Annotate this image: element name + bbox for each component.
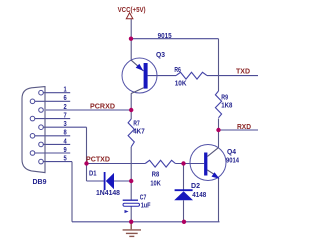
svg-text:TXD: TXD [236,66,250,75]
svg-text:4K7: 4K7 [133,127,145,136]
svg-text:4148: 4148 [192,190,206,199]
svg-text:R6: R6 [174,65,181,74]
svg-text:D2: D2 [191,181,200,190]
svg-text:1uF: 1uF [141,200,151,209]
svg-text:5: 5 [64,154,67,163]
svg-text:9014: 9014 [226,156,239,165]
svg-text:PCTXD: PCTXD [86,154,110,163]
svg-text:10K: 10K [150,179,161,188]
svg-text:VCC(+5V): VCC(+5V) [118,5,147,14]
svg-text:6: 6 [64,93,67,102]
svg-text:R8: R8 [152,169,160,178]
svg-text:PCRXD: PCRXD [90,101,115,110]
svg-text:9015: 9015 [158,31,172,40]
svg-text:D1: D1 [89,169,97,178]
svg-text:1K8: 1K8 [221,101,232,110]
svg-text:Q3: Q3 [156,50,165,59]
svg-text:DB9: DB9 [33,177,47,186]
svg-text:RXD: RXD [237,122,251,131]
svg-text:10K: 10K [175,78,188,87]
svg-text:1N4148: 1N4148 [96,188,120,197]
